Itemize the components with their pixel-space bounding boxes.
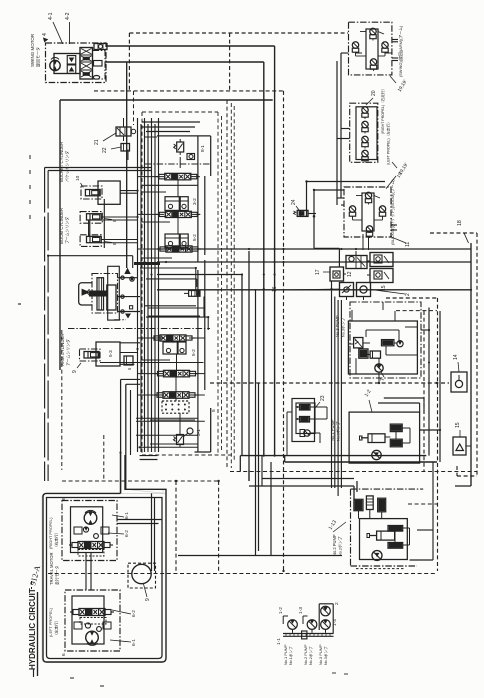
wire y2557	[48, 255, 133, 257]
no2 accum c	[378, 498, 386, 512]
svg-text:15: 15	[455, 422, 461, 428]
left long verts	[44, 168, 46, 482]
pilot group20 core	[356, 107, 377, 160]
pilot group20 box	[350, 103, 378, 162]
svg-text:BUCKET CYLINDER: BUCKET CYLINDER	[59, 142, 64, 182]
arm cylinder	[84, 352, 99, 359]
svg-text:24: 24	[291, 199, 297, 205]
pilot bus v	[340, 53, 342, 198]
pilot dash vert	[283, 91, 285, 571]
no2 accum b	[366, 496, 373, 510]
valve 8-1 relief	[177, 142, 184, 152]
bucket cylinder dashdot	[81, 186, 102, 199]
right propel motor	[84, 512, 97, 525]
reduce cluster core	[97, 278, 104, 310]
svg-text:バケットシリンダ: バケットシリンダ	[65, 151, 70, 182]
inner dashed box	[142, 111, 218, 113]
dash v133	[133, 91, 135, 125]
svg-text:4-2: 4-2	[65, 12, 71, 20]
bank top h	[157, 135, 211, 137]
svg-text:17: 17	[315, 269, 321, 275]
no1 link	[395, 432, 397, 440]
svg-text:14: 14	[453, 354, 459, 360]
boom cylinder 2	[80, 235, 101, 247]
left propel inner	[72, 596, 104, 644]
svg-text:(RIGHT PROPEL): (RIGHT PROPEL)	[48, 517, 53, 549]
pilot pair P3	[163, 342, 177, 354]
valve 23c	[304, 430, 310, 436]
valve 17	[330, 267, 344, 281]
no2 solid frame	[360, 519, 408, 560]
right propel dashdot	[62, 501, 117, 561]
svg-text:6-2: 6-2	[131, 610, 137, 617]
svg-text:BOOM CYLINDER: BOOM CYLINDER	[59, 208, 64, 244]
svg-text:9: 9	[72, 370, 78, 373]
no3 wires	[348, 343, 353, 345]
dash bottom bus	[48, 573, 437, 575]
dash h471	[230, 471, 477, 473]
travel feed verts	[120, 379, 122, 493]
left propel spool	[79, 609, 105, 616]
pump wires right	[420, 429, 440, 431]
pilot g20 wires	[341, 128, 350, 130]
pilot group19 box	[349, 22, 392, 75]
bank mid h	[142, 184, 198, 186]
reduce junctions	[121, 276, 124, 279]
wire W3	[314, 189, 344, 191]
bucket cylinder	[85, 190, 100, 196]
bank right verts	[197, 136, 199, 262]
bundle rows	[140, 267, 196, 269]
boom cyl links	[88, 220, 90, 237]
no3 spool	[382, 340, 394, 346]
pump wires left	[262, 478, 354, 480]
valve 16a	[340, 283, 354, 297]
pilot g11 glyph right	[379, 206, 385, 212]
svg-text:アームシリンダ: アームシリンダ	[66, 339, 71, 366]
bank vert x130	[130, 390, 132, 455]
svg-text:No.1ポンプ: No.1ポンプ	[336, 422, 341, 441]
bus H3	[157, 274, 242, 276]
swing motor M1	[50, 60, 60, 70]
reduce wires	[118, 277, 138, 279]
spool row V5	[164, 370, 190, 377]
bank bus verticals	[137, 118, 139, 452]
swing relief small	[94, 61, 103, 67]
lp relief	[85, 623, 90, 628]
main frame bottom	[195, 451, 211, 453]
no2 circle	[372, 551, 382, 561]
pilot g19 glyph left	[352, 42, 358, 48]
svg-text:5: 5	[211, 409, 217, 412]
svg-text:5-2: 5-2	[191, 349, 196, 356]
valve 15b	[370, 269, 393, 283]
wire bus C	[126, 62, 128, 268]
pilot g19 innerwires	[360, 31, 366, 33]
svg-text:TRAVEL MOTOR: TRAVEL MOTOR	[49, 553, 54, 586]
boom cylinder 1	[80, 212, 102, 224]
svg-text:6-1: 6-1	[131, 639, 137, 646]
pilot pair P2	[165, 234, 179, 248]
svg-text:No.3ポンプ: No.3ポンプ	[323, 646, 328, 665]
svg-text:(LEFT PROPEL)（左走行）: (LEFT PROPEL)（左走行）	[386, 120, 391, 165]
no2 dark a	[388, 526, 403, 532]
travel loop path1	[43, 453, 166, 663]
svg-text:3-2: 3-2	[192, 198, 197, 205]
title dots	[31, 581, 33, 584]
pilot group19 core	[366, 29, 378, 69]
legend pump4	[321, 620, 331, 630]
arm wires	[120, 342, 140, 344]
bus H1	[157, 248, 471, 250]
wire bus B	[105, 61, 264, 63]
svg-text:(ARM)(アーム): (ARM)(アーム)	[398, 25, 403, 51]
swing drain ellipse	[93, 76, 99, 80]
title underline	[37, 592, 39, 676]
legend pump3	[321, 606, 331, 616]
main frame top	[60, 99, 273, 101]
left propel motor	[86, 631, 99, 644]
dash v176	[175, 481, 177, 574]
travel feed corners	[121, 378, 140, 380]
svg-text:18: 18	[457, 220, 463, 226]
valve 8-1 pilot	[187, 154, 195, 160]
more dots	[282, 248, 284, 250]
right propel inner	[71, 507, 103, 553]
no3 valve a	[354, 338, 363, 348]
spool row V2	[165, 211, 191, 217]
spool row V6	[163, 392, 189, 399]
svg-text:No.2ポンプ: No.2ポンプ	[308, 646, 313, 665]
pilot g19 glyph bottom	[370, 59, 376, 65]
vert x249	[248, 251, 250, 481]
box 15t	[453, 437, 466, 455]
no1 solid frame	[349, 412, 420, 463]
svg-text:15: 15	[381, 285, 387, 291]
bundle links	[195, 268, 197, 290]
pilot group11 box	[344, 187, 391, 237]
svg-text:No.2ポンプ: No.2ポンプ	[338, 537, 343, 556]
svg-text:1-2: 1-2	[278, 607, 284, 614]
bank dashdot h2	[68, 328, 210, 330]
reduce cluster dashdot	[92, 274, 118, 314]
reduce extra	[126, 314, 130, 318]
reduce cluster left box	[79, 283, 92, 305]
legend pump1	[288, 620, 298, 630]
no2 dashdot box	[351, 488, 424, 490]
valve 15a	[370, 253, 393, 267]
bank top link	[144, 136, 157, 138]
wire W2	[307, 181, 386, 183]
legend bracket	[318, 604, 320, 630]
dash bus 14	[210, 382, 449, 384]
svg-text:6: 6	[61, 653, 67, 656]
pilot g11 glyph bottom	[366, 226, 372, 232]
right propel spool	[78, 542, 104, 549]
svg-text:（右走行）: （右走行）	[54, 531, 59, 549]
travel loop path2	[47, 498, 163, 659]
svg-text:11: 11	[405, 242, 411, 247]
no3 pumpcircle sm	[397, 341, 403, 347]
svg-text:5-2: 5-2	[192, 234, 197, 241]
pilot g11 downwires	[368, 237, 370, 250]
valve 23a	[300, 405, 311, 411]
svg-text:23: 23	[320, 395, 326, 401]
legend fitting	[302, 631, 307, 639]
valve 22b	[124, 356, 133, 365]
svg-text:7: 7	[380, 378, 386, 381]
cluster wires	[344, 273, 347, 275]
svg-text:No.2 PUMP: No.2 PUMP	[303, 644, 308, 665]
dash v103	[103, 435, 105, 481]
svg-text:20: 20	[371, 90, 377, 96]
swivel joint	[132, 564, 151, 583]
svg-text:No.3 PUMP: No.3 PUMP	[318, 644, 323, 665]
svg-text:旋回モータ: 旋回モータ	[35, 47, 41, 67]
pilot pair P1	[165, 197, 179, 211]
page marks	[18, 303, 21, 305]
valve 16b	[357, 283, 371, 297]
swing inner dashdot	[93, 51, 106, 80]
arm port block	[96, 342, 120, 366]
dark band	[134, 262, 160, 265]
bus H2	[157, 261, 471, 263]
svg-text:1-3: 1-3	[298, 607, 304, 614]
drop verts	[331, 281, 333, 488]
no2 accum a	[354, 499, 363, 510]
legend rail	[283, 633, 334, 635]
pilot g19 glyph right	[382, 42, 388, 48]
svg-text:No.1 PUMP: No.1 PUMP	[283, 644, 288, 665]
no1 cylinder	[368, 434, 385, 443]
no2 wires top	[358, 511, 360, 519]
no3 solid frame	[348, 321, 417, 374]
valve 23b	[300, 417, 310, 423]
valve 21	[116, 127, 131, 136]
no1 circle	[372, 450, 381, 459]
margin dashes	[29, 155, 31, 159]
no1 wire top	[384, 397, 424, 399]
main frame right	[226, 100, 228, 468]
svg-text:16: 16	[272, 286, 278, 292]
svg-text:No.1ポンプ: No.1ポンプ	[288, 646, 293, 665]
pilot group11 core	[362, 193, 374, 231]
svg-text:21: 21	[94, 139, 100, 145]
svg-text:1-1: 1-1	[276, 638, 282, 645]
wire W4	[308, 213, 316, 215]
no3 extra	[351, 310, 353, 321]
valve 23 frame	[292, 399, 315, 442]
valve 12	[346, 256, 367, 269]
feed rows	[100, 362, 204, 364]
pilot g19 wires	[341, 52, 349, 54]
dash v424	[423, 311, 425, 472]
left propel dashdot	[65, 590, 120, 651]
wire bus A	[107, 45, 275, 47]
spool row V4	[160, 335, 186, 341]
no3 main circle	[375, 364, 383, 372]
bucket wires	[120, 190, 137, 192]
bank stubs	[138, 176, 165, 178]
pilot dash top	[129, 32, 348, 34]
no2 dash bottom	[356, 568, 405, 570]
wire 18 vert	[470, 243, 472, 486]
svg-text:(BUCKET)(バケット): (BUCKET)(バケット)	[390, 208, 395, 245]
wires 21	[123, 118, 125, 127]
svg-text:(LEFT PROPEL): (LEFT PROPEL)	[48, 607, 53, 637]
bucket port block	[98, 181, 120, 204]
valve 22	[121, 144, 130, 152]
swing valve block	[80, 48, 93, 80]
wire bus B2	[140, 455, 158, 457]
main frame left	[59, 100, 61, 370]
no3 dashdot box	[350, 302, 421, 378]
no2 dark b	[388, 543, 403, 549]
pilot g11 glyph left	[349, 206, 355, 212]
box 5 dashed	[162, 401, 189, 413]
bank dashdot h1	[145, 163, 210, 165]
svg-text:9: 9	[145, 598, 151, 601]
svg-text:2: 2	[405, 293, 411, 296]
bus dots	[263, 248, 265, 250]
svg-text:10: 10	[75, 175, 81, 181]
svg-text:8-1: 8-1	[200, 145, 205, 152]
svg-text:ARM CYLINDER: ARM CYLINDER	[60, 334, 65, 366]
rp relief	[83, 527, 88, 532]
svg-text:（左走行）: （左走行）	[54, 619, 59, 637]
pilot g11 innerwires	[356, 195, 362, 197]
dash v437	[437, 298, 439, 571]
dash right frame	[476, 233, 478, 476]
svg-text:(RIGHT PROPEL)（右走行）: (RIGHT PROPEL)（右走行）	[380, 87, 385, 134]
no2 cylinder	[377, 531, 395, 540]
no1 dash bottom	[382, 462, 407, 464]
arm cylinder dashdot	[80, 349, 101, 361]
check valve CV1	[67, 56, 76, 65]
svg-text:4: 4	[42, 33, 48, 36]
svg-text:No.3 PUMP: No.3 PUMP	[335, 315, 340, 337]
pilot g11 wires	[337, 197, 344, 199]
svg-text:ブームシリンダ: ブームシリンダ	[65, 217, 70, 244]
pilot g19 glyph top	[370, 28, 376, 34]
dash h481	[62, 480, 219, 482]
svg-text:No.3ポンプ: No.3ポンプ	[341, 318, 346, 337]
svg-text:No.2 PUMP: No.2 PUMP	[332, 534, 337, 556]
no3 cylinder	[370, 351, 380, 358]
pilot g20 glyphs	[362, 107, 368, 113]
spool row V3	[166, 246, 192, 252]
bank stems	[177, 180, 179, 197]
spool row V1	[165, 173, 191, 180]
legend pump2	[307, 620, 317, 630]
svg-text:6-1: 6-1	[124, 512, 130, 519]
rp wires	[117, 519, 162, 521]
no2 link	[394, 531, 396, 542]
no1 dark b	[390, 439, 402, 447]
check valve CV2	[67, 65, 76, 74]
swing motor housing	[54, 54, 80, 74]
svg-text:5-3: 5-3	[108, 350, 113, 357]
pilot dash mid	[94, 90, 284, 92]
bus H4	[157, 289, 471, 291]
svg-text:12: 12	[347, 271, 353, 277]
svg-text:(SWING)(旋回): (SWING)(旋回)	[398, 50, 403, 77]
svg-text:HYDRAULIC CIRCUIT: HYDRAULIC CIRCUIT	[28, 588, 37, 670]
box 14	[451, 372, 467, 392]
wires 23	[310, 406, 327, 408]
svg-text:2: 2	[334, 602, 340, 605]
travel loop outer	[42, 489, 166, 662]
svg-text:6-2: 6-2	[124, 530, 130, 537]
no3 dark glyph	[359, 349, 368, 358]
svg-text:22: 22	[102, 147, 108, 153]
svg-text:No.1 PUMP: No.1 PUMP	[330, 419, 335, 441]
swing port box	[94, 44, 107, 50]
svg-text:走行モータ: 走行モータ	[55, 565, 60, 585]
valve 3-1	[187, 428, 193, 434]
svg-text:SWING MOTOR: SWING MOTOR	[30, 33, 35, 67]
no1 dark a	[390, 424, 402, 432]
dash v218	[218, 481, 220, 574]
bottom rect line	[178, 555, 342, 557]
swing motor dash-dot box	[46, 43, 107, 83]
svg-text:6: 6	[61, 497, 67, 500]
valve 24	[297, 210, 308, 216]
pilot g11 glyph top	[365, 192, 371, 198]
mini valve mid	[189, 291, 200, 297]
svg-text:4-1: 4-1	[48, 12, 54, 20]
